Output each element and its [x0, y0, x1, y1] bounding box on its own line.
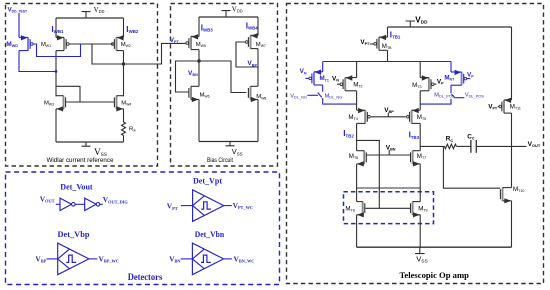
schmitt trigger U4 [58, 243, 89, 275]
wire VN dash (MT2) [337, 83, 340, 85]
inverter U1 [60, 198, 72, 210]
box Bias Circuit [171, 4, 278, 167]
schmitt trigger U3 [193, 190, 224, 222]
wire MW3 source down [55, 109, 57, 142]
transistor MNT [461, 72, 463, 85]
wire MT3 source up [419, 62, 421, 78]
node VBN junction [197, 59, 200, 62]
svg-text:VDL_NG: VDL_NG [290, 93, 307, 99]
wire gate MW1-MW2 [69, 43, 114, 45]
transistor MW3 [63, 96, 65, 109]
svg-text:Det_Vbn: Det_Vbn [195, 229, 225, 239]
svg-text:Widlar current reference: Widlar current reference [47, 157, 114, 164]
wire MNT drain down [450, 85, 452, 93]
power VDD (Tele) [406, 21, 415, 27]
transistor MT6 [363, 151, 365, 164]
wire MT8 drain up [356, 188, 358, 202]
wire VBN to MW8 gate [199, 61, 246, 93]
wire gate to drain tie [92, 44, 124, 64]
wire VPT dash (MTB) [370, 43, 374, 45]
transistor MT7 [412, 151, 414, 164]
wire CC to VOUT [477, 145, 527, 147]
wire VDD rail (Tele) [388, 26, 512, 28]
wire MT5 drain down [419, 123, 421, 150]
wire MNT drain to node [420, 99, 451, 104]
wire MW7 diode tie [236, 42, 258, 67]
wire VBN to MW6 gate [176, 61, 200, 92]
wire MW5 source from rail [198, 17, 200, 36]
wire MT11 drain down [511, 113, 513, 146]
wire inverter out [100, 203, 103, 205]
transistor MW1 [63, 37, 65, 50]
svg-text:Bias Circuit: Bias Circuit [207, 157, 233, 164]
transistor MWD [27, 37, 29, 50]
ground VSS (Widlar) [82, 142, 91, 146]
transistor MW5 [190, 36, 192, 49]
wire Rw to rail [123, 136, 125, 143]
box Telescopic Op amp [287, 4, 544, 284]
wire right branch from rail [123, 18, 125, 37]
transistor MT3 [428, 78, 430, 91]
wire MW5 drain down [198, 50, 200, 87]
wire MW1 drain down [55, 51, 57, 97]
switch MDL_NG [318, 93, 322, 98]
wire MW2 drain down [123, 51, 125, 97]
wire VSS rail (Tele) [357, 246, 512, 248]
wire MW4 source to resistor [123, 109, 125, 122]
wire MT3 drain down [419, 91, 421, 110]
wire tap down to MT10 gate [443, 146, 500, 188]
wire gate MW3-MW4 [66, 101, 115, 103]
wire MWD drain down-right [19, 51, 56, 72]
transistor MW7 [250, 35, 252, 48]
wire node to MT8 gate vertical [357, 140, 380, 208]
transistor MT8 [362, 202, 364, 215]
power VDD (Bias) [222, 11, 231, 17]
wire VDD rail (Widlar) [56, 17, 124, 19]
wire VPT dash (MT11) [498, 106, 499, 108]
transistor MT2 [344, 78, 346, 91]
wire middle rail [357, 187, 421, 189]
wire MT1 source up [322, 62, 324, 72]
wire tail node black [357, 61, 420, 63]
wire MT9 drain up [419, 188, 421, 202]
wire MT7 source down [419, 164, 421, 188]
transistor MW2 [116, 37, 118, 50]
schmitt trigger U5 [192, 243, 223, 275]
wire MW3 diode tie [56, 86, 80, 102]
wire VDD rail (Bias) [199, 16, 258, 18]
transistor MT9 [412, 202, 414, 215]
wire tail node blue right [420, 61, 451, 63]
svg-text:Telescopic Op amp: Telescopic Op amp [399, 270, 469, 280]
svg-text:Det_Vbp: Det_Vbp [58, 229, 90, 239]
transistor MTB [378, 37, 380, 50]
wire VPT to schmitt [181, 205, 193, 207]
transistor MW6 [190, 86, 192, 99]
wire MT4 drain down [356, 123, 358, 150]
wire tail node blue left [323, 61, 357, 63]
ground VSS (Tele) [415, 247, 425, 253]
transistor MT4 [364, 110, 366, 123]
wire schmitt U5 out [224, 258, 232, 260]
wire VDD_TEST down [18, 13, 20, 37]
inverter U2 [85, 198, 97, 210]
resistor RC [444, 144, 456, 149]
wire MT8 source down [356, 215, 358, 247]
wire gate MT8-MT9 [365, 207, 411, 209]
wire VBN to schmitt [181, 258, 193, 260]
ground VSS (Bias) [226, 142, 235, 146]
box Widlar current reference [6, 4, 158, 167]
wire VPT to bias circuit [124, 43, 186, 64]
wire left branch from rail [55, 18, 57, 37]
power VDD (Widlar) [82, 12, 91, 18]
resistor Rw [122, 122, 126, 136]
wire MW7 drain down [257, 49, 259, 87]
wire VBP to schmitt [46, 258, 57, 260]
wire MTB source from rail [387, 27, 389, 37]
node VPT junction [122, 62, 125, 65]
wire MT2 drain down [356, 91, 358, 110]
wire VBP tick [387, 113, 389, 117]
svg-text:Det_Vout: Det_Vout [60, 181, 92, 191]
transistor MW4 [116, 96, 118, 109]
wire VN dash (MT1) [305, 77, 308, 79]
wire VOUT to inverter [56, 203, 60, 205]
wire MT9 source down [419, 215, 421, 247]
wire VBN gate wire (tele) [366, 154, 410, 156]
transistor MT1 [313, 72, 315, 85]
wire MWD gate loop [33, 44, 80, 57]
wire MNT source up [450, 62, 452, 73]
wire MT1 drain down [322, 85, 324, 92]
transistor MT10 [502, 188, 504, 201]
wire MT6 source down [356, 164, 358, 188]
wire VBP gate wire [371, 116, 406, 118]
wire VSS rail (Bias) [199, 141, 258, 143]
wire MT11 source from rail [511, 27, 513, 100]
transistor MT11 [503, 100, 505, 113]
wire MTB drain to tail [387, 50, 389, 61]
wire VP dash (MNT) [467, 78, 470, 80]
wire schmitt U4 out [89, 258, 97, 260]
wire MW6 source down [198, 100, 200, 142]
capacitor CC [470, 140, 472, 153]
wire MT2 source up [356, 62, 358, 78]
svg-text:Det_Vpt: Det_Vpt [193, 176, 222, 186]
switch MDL_POS [451, 94, 455, 98]
svg-text:MDL_POS: MDL_POS [434, 92, 454, 98]
wire schmitt U3 out [224, 205, 232, 207]
transistor MW8 [250, 86, 252, 99]
wire MW8 source down [257, 100, 259, 142]
box gain set (blue dashed) [344, 192, 434, 224]
svg-text:MDL_NG: MDL_NG [325, 93, 343, 99]
wire MW7 source from rail [257, 17, 259, 35]
wire VBN tick (tele) [388, 150, 390, 155]
transistor MT5 [411, 110, 413, 123]
wire RC to CC [456, 145, 470, 147]
wire between inverters [75, 203, 84, 205]
wire MT1 drain to node [323, 98, 357, 104]
box Detectors [6, 172, 280, 285]
wire cascode tap to RC [420, 145, 444, 147]
wire VSS rail (Widlar) [56, 141, 124, 143]
node MWD drain junction [55, 70, 58, 73]
wire MT10 source down [511, 201, 513, 247]
svg-text:VDL_POS: VDL_POS [465, 92, 484, 98]
svg-text:Detectors: Detectors [128, 272, 163, 282]
wire MT10 drain up [511, 146, 513, 187]
wire VP dash (MT3) [434, 83, 436, 85]
